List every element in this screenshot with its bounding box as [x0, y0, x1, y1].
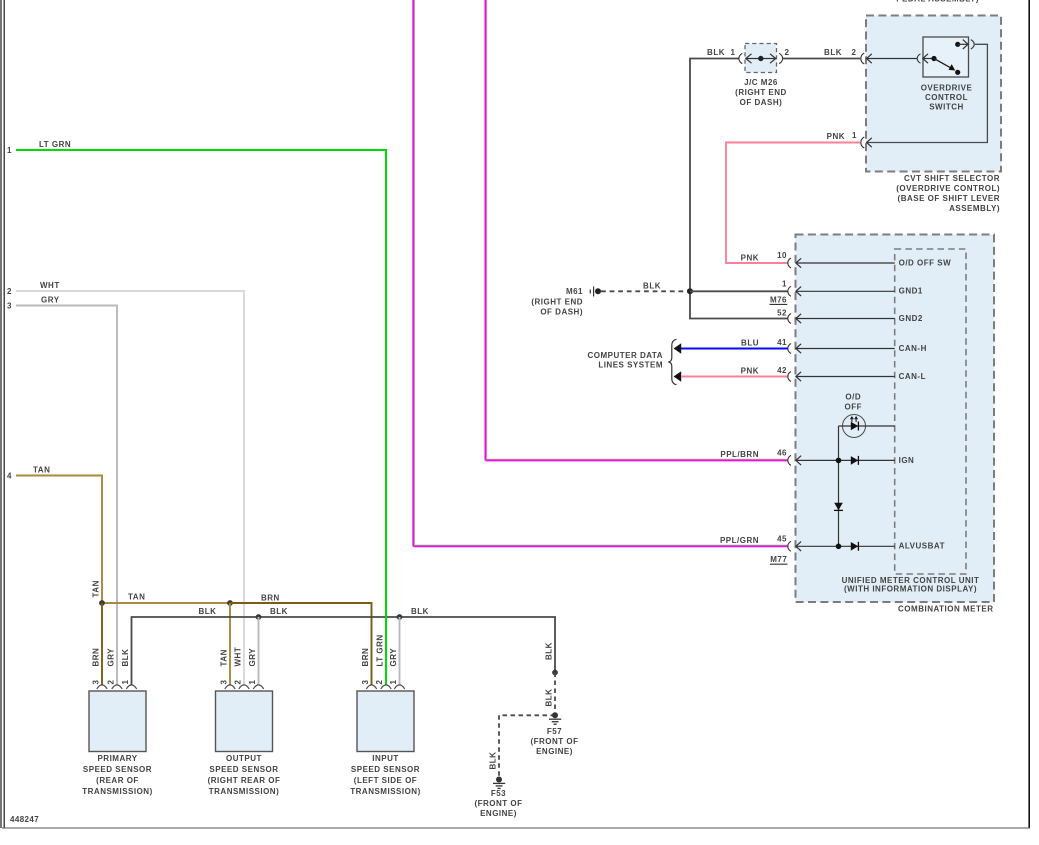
svg-text:BLK: BLK [121, 649, 130, 667]
wire BLK ground bus [132, 617, 556, 685]
svg-text:TAN: TAN [128, 593, 145, 602]
svg-text:BLU: BLU [741, 339, 759, 348]
svg-text:BLK: BLK [643, 282, 661, 291]
svg-text:OUTPUT: OUTPUT [226, 754, 262, 763]
svg-text:PPL/BRN: PPL/BRN [720, 450, 759, 459]
connector arrow CVT pin 1 [867, 138, 872, 147]
combination meter box outline [796, 235, 995, 603]
svg-text:OVERDRIVE: OVERDRIVE [921, 84, 973, 93]
svg-text:TRANSMISSION): TRANSMISSION) [350, 787, 421, 796]
node junction TAN [99, 600, 105, 606]
svg-text:COMBINATION METER: COMBINATION METER [898, 605, 993, 614]
svg-text:BRN: BRN [92, 648, 101, 667]
svg-text:PNK: PNK [827, 132, 845, 141]
ground F57 [549, 712, 561, 724]
svg-text:BRN: BRN [361, 648, 370, 667]
node junction BLK output sensor [256, 614, 262, 620]
svg-text:3: 3 [361, 680, 370, 685]
svg-text:TRANSMISSION): TRANSMISSION) [82, 787, 153, 796]
svg-text:(RIGHT END: (RIGHT END [735, 88, 787, 97]
svg-text:SPEED SENSOR: SPEED SENSOR [351, 765, 420, 774]
connector ( at CVT pin 2 [861, 53, 864, 64]
diode on ALVUSBAT line [851, 542, 858, 551]
svg-text:41: 41 [777, 338, 787, 347]
connector ) at switch output [971, 40, 974, 49]
wire PNK CAN-L [681, 376, 788, 378]
wire BLK from J/C M26 down to M61 junction and GND2 [690, 59, 788, 319]
svg-text:WHT: WHT [40, 281, 60, 290]
connector arrow into switch [923, 54, 934, 63]
switch common contact [931, 56, 936, 61]
svg-text:LT GRN: LT GRN [39, 140, 71, 149]
pin 42 connector (CAN-L) [777, 366, 926, 381]
svg-text:BLK: BLK [489, 752, 498, 770]
node junction ALVUSBAT [836, 544, 842, 550]
wire GRY from entry 3 [16, 306, 117, 686]
node junction IGN [836, 458, 842, 464]
diode on IGN line [851, 456, 858, 465]
svg-text:PEDAL ASSEMBLY): PEDAL ASSEMBLY) [896, 0, 979, 4]
svg-text:PPL/GRN: PPL/GRN [720, 536, 759, 545]
connector ) at J/C M26 pin 2 [779, 53, 782, 63]
svg-text:GRY: GRY [248, 648, 257, 667]
node splice BLK [552, 670, 558, 676]
wire TAN from entry 4 [16, 476, 102, 604]
wire BLK from J/C M26 pin 2 to CVT selector [783, 58, 860, 60]
wire PNK from CVT pin 1 to combination meter pin 10 [726, 143, 860, 264]
pin 10 connector (O/D OFF SW) [741, 251, 952, 268]
wire from switch output looping to CVT pin 1 [866, 44, 987, 142]
node junction BLK input sensor [397, 614, 403, 620]
bus bar inside J/C M26 with arrows both ends [746, 54, 777, 63]
connector ( at switch input [917, 54, 920, 63]
svg-text:45: 45 [777, 534, 787, 543]
wire PPL/GRN horizontal to ALVUSBAT pin 45 [413, 545, 787, 546]
svg-text:ENGINE): ENGINE) [536, 747, 573, 756]
svg-text:TAN: TAN [33, 466, 50, 475]
svg-text:1: 1 [389, 680, 398, 685]
pin 41 connector (CAN-H) [777, 338, 927, 353]
svg-text:GRY: GRY [389, 648, 398, 667]
svg-text:CVT SHIFT SELECTOR: CVT SHIFT SELECTOR [904, 174, 1000, 183]
wire PPL/GRN vertical to ALVUSBAT [413, 0, 414, 546]
connector arrow CVT pin 2 [866, 54, 917, 63]
input speed sensor box [357, 691, 414, 752]
pin 52 connector (GND2) [777, 309, 923, 324]
svg-text:OFF: OFF [845, 402, 863, 411]
wire GRY down to output sensor pin 1 [258, 617, 260, 685]
svg-text:GRY: GRY [41, 296, 60, 305]
svg-text:PNK: PNK [741, 367, 759, 376]
svg-text:BLK: BLK [199, 607, 217, 616]
svg-text:M77: M77 [770, 555, 787, 564]
svg-text:3: 3 [220, 680, 229, 685]
LED arrows [851, 417, 858, 422]
connector pin arcs primary [97, 685, 137, 689]
svg-text:TAN: TAN [92, 580, 101, 597]
svg-text:(BASE OF SHIFT LEVER: (BASE OF SHIFT LEVER [898, 194, 1000, 203]
wire from LED down to ALVUSBAT [838, 426, 840, 546]
svg-text:M61: M61 [566, 287, 583, 296]
svg-text:(REAR OF: (REAR OF [96, 776, 139, 785]
pin 1 connector (GND1) [782, 279, 923, 296]
svg-text:(LEFT SIDE OF: (LEFT SIDE OF [354, 776, 417, 785]
svg-text:BRN: BRN [261, 594, 280, 603]
connector pin arcs input [366, 685, 404, 689]
svg-text:1: 1 [852, 131, 857, 140]
svg-text:1: 1 [7, 146, 12, 155]
node dot M61 [595, 288, 601, 294]
svg-text:1: 1 [782, 279, 787, 288]
svg-text:BLK: BLK [545, 642, 554, 660]
svg-text:M76: M76 [770, 295, 787, 304]
svg-text:O/D OFF SW: O/D OFF SW [899, 258, 952, 267]
svg-text:O/D: O/D [845, 393, 861, 402]
svg-text:WHT: WHT [234, 647, 243, 667]
svg-text:BLK: BLK [545, 689, 554, 707]
ground F53 [493, 777, 505, 789]
svg-text:TRANSMISSION): TRANSMISSION) [209, 787, 280, 796]
svg-text:F57: F57 [547, 727, 562, 736]
svg-text:CAN-L: CAN-L [899, 372, 926, 381]
unified meter control unit box [895, 249, 966, 574]
junction J/C M26 box [745, 44, 777, 73]
svg-text:ASSEMBLY): ASSEMBLY) [949, 204, 1000, 213]
svg-text:J/C M26: J/C M26 [744, 78, 778, 87]
arrow out of switch top contact [958, 40, 968, 49]
wire TAN down to output sensor pin 3 [229, 603, 231, 685]
svg-text:2: 2 [7, 287, 12, 296]
svg-text:2: 2 [785, 48, 790, 57]
svg-text:(RIGHT END: (RIGHT END [531, 298, 583, 307]
wire BLK dashed branch to ground F53 [499, 715, 555, 779]
arrow CAN-L to data lines [674, 371, 682, 382]
wire LT GRN from entry 1 [16, 150, 386, 685]
page border left double line [1, 0, 4, 828]
svg-text:(OVERDRIVE CONTROL): (OVERDRIVE CONTROL) [896, 184, 1000, 193]
svg-text:1: 1 [248, 680, 257, 685]
svg-text:CONTROL: CONTROL [925, 93, 968, 102]
switch contact (upper, output) [955, 42, 960, 47]
svg-text:(WITH INFORMATION DISPLAY): (WITH INFORMATION DISPLAY) [844, 585, 977, 594]
wire BLU CAN-H [681, 348, 788, 350]
arrow CAN-H to data lines [674, 343, 682, 354]
ground lug M61 [590, 287, 593, 297]
svg-text:(FRONT OF: (FRONT OF [474, 799, 522, 808]
overdrive control switch box [923, 37, 969, 77]
switch arm with arrowhead [934, 59, 952, 69]
svg-text:INPUT: INPUT [372, 754, 399, 763]
svg-text:COMPUTER DATA: COMPUTER DATA [587, 351, 663, 360]
svg-text:1: 1 [121, 680, 130, 685]
wire BLK dashed to ground F57 [554, 673, 556, 716]
svg-text:BLK: BLK [707, 48, 725, 57]
svg-text:SPEED SENSOR: SPEED SENSOR [83, 765, 152, 774]
wire BLK junction to GND1 [690, 290, 788, 292]
svg-text:PRIMARY: PRIMARY [97, 754, 137, 763]
svg-text:CAN-H: CAN-H [899, 344, 927, 353]
page border right [1028, 0, 1030, 828]
svg-text:10: 10 [777, 251, 787, 260]
svg-text:GRY: GRY [107, 648, 116, 667]
switch contact (lower) [955, 70, 960, 75]
svg-text:LT GRN: LT GRN [376, 634, 385, 666]
wire BRN down to primary sensor pin 3 [101, 603, 103, 685]
svg-text:1: 1 [731, 48, 736, 57]
wire through LED [839, 425, 895, 427]
svg-text:BLK: BLK [411, 607, 429, 616]
wire BRN horizontal to input sensor pin 3 [230, 603, 372, 685]
primary speed sensor box [89, 691, 146, 752]
connector ( at J/C M26 pin 1 [739, 53, 742, 63]
svg-text:(RIGHT REAR OF: (RIGHT REAR OF [208, 776, 281, 785]
svg-text:IGN: IGN [899, 456, 915, 465]
indicator lamp O/D OFF (LED) [843, 415, 866, 438]
wire PPL/BRN horizontal to IGN pin 46 [485, 459, 787, 460]
combination meter box fill [796, 235, 995, 603]
wire LT GRN overdraw at bus crossing [385, 612, 387, 622]
output speed sensor box [216, 691, 273, 752]
svg-text:TAN: TAN [220, 649, 229, 666]
CVT shift selector box outline [866, 16, 1001, 172]
svg-text:2: 2 [107, 680, 116, 685]
svg-text:52: 52 [777, 309, 787, 318]
svg-text:ENGINE): ENGINE) [480, 809, 517, 818]
brace to computer data lines [668, 339, 676, 384]
connector ( at CVT pin 1 [861, 137, 864, 148]
svg-text:42: 42 [777, 366, 787, 375]
svg-text:BLK: BLK [824, 48, 842, 57]
wire GRY down to input sensor pin 1 [399, 617, 401, 685]
page border bottom [2, 827, 1030, 829]
svg-text:SPEED SENSOR: SPEED SENSOR [209, 765, 278, 774]
svg-text:3: 3 [7, 302, 12, 311]
svg-text:F53: F53 [491, 789, 506, 798]
svg-text:4: 4 [7, 472, 12, 481]
diode on vertical line (pointing down) [834, 503, 843, 510]
svg-text:BLK: BLK [270, 607, 288, 616]
wire WHT from entry 2 [16, 291, 244, 685]
svg-text:OF DASH): OF DASH) [740, 98, 783, 107]
node junction BLK at M61 branch [687, 288, 693, 294]
svg-text:PNK: PNK [741, 253, 759, 262]
svg-text:GND1: GND1 [899, 287, 923, 296]
svg-text:2: 2 [375, 680, 384, 685]
svg-text:3: 3 [92, 680, 101, 685]
node dot inside J/C M26 [758, 56, 763, 61]
svg-text:SWITCH: SWITCH [929, 103, 964, 112]
svg-text:46: 46 [777, 449, 787, 458]
node junction TAN/BRN [227, 600, 233, 606]
CVT shift selector box fill [866, 16, 1001, 172]
svg-text:LINES SYSTEM: LINES SYSTEM [598, 361, 663, 370]
svg-text:(FRONT OF: (FRONT OF [530, 737, 578, 746]
J/C M26 box fill [745, 44, 777, 73]
svg-text:448247: 448247 [10, 815, 39, 824]
connector pin arcs output [225, 685, 264, 689]
svg-text:GND2: GND2 [899, 314, 923, 323]
svg-text:2: 2 [852, 48, 857, 57]
svg-text:OF DASH): OF DASH) [540, 308, 583, 317]
svg-text:ALVUSBAT: ALVUSBAT [899, 542, 945, 551]
LED diode triangle [851, 422, 858, 431]
pin 46 connector (IGN) [777, 449, 914, 466]
wire BLK dashed from M61 to junction [601, 290, 690, 292]
pin 45 connector (ALVUSBAT) [777, 534, 945, 551]
svg-text:2: 2 [234, 680, 243, 685]
wire TAN horizontal [102, 602, 230, 604]
wire PPL/BRN vertical to IGN [485, 0, 486, 460]
